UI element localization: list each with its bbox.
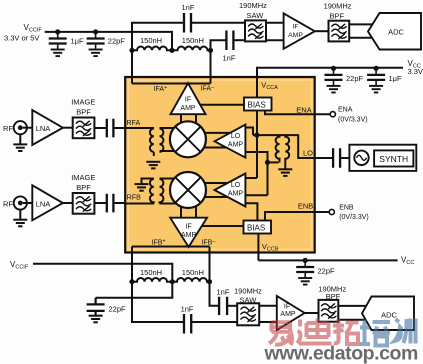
wire 1nF to SAW upper input <box>191 22 245 24</box>
terminal ENB <box>329 209 334 214</box>
IC block LT5575 dual downconverting mixer (orange body) <box>125 77 315 253</box>
wire VCCA pin into BIAS A <box>256 68 258 98</box>
svg-text:22pF: 22pF <box>108 37 126 46</box>
svg-text:RF: RF <box>3 199 13 208</box>
svg-text:AMP: AMP <box>181 232 197 239</box>
op-amp IF AMP (internal, channel A) <box>171 83 206 114</box>
wire SAW B to IF amp B (differential) <box>259 306 277 322</box>
svg-text:SAW: SAW <box>247 11 265 20</box>
svg-text:(0V/3.3V): (0V/3.3V) <box>339 214 369 221</box>
svg-text:ENA: ENA <box>296 106 311 115</box>
op-amp IF AMP (external, channel A) <box>284 13 315 48</box>
BPF 190MHz (channel B) <box>318 284 346 321</box>
capacitor 22pF (VCC bottom bypass) <box>296 258 335 285</box>
wire VCCB pin to rail <box>257 234 259 261</box>
SAW filter 190MHz (channel A) <box>239 1 267 41</box>
capacitor 1nF series (IFA- to SAW) <box>223 31 236 63</box>
BPF 190MHz (channel A) <box>324 2 352 42</box>
svg-text:AMP: AMP <box>180 105 196 112</box>
svg-text:1μF: 1μF <box>71 37 84 46</box>
wire transformer B secondary to mixer <box>160 179 176 204</box>
transformer (LO input balun) <box>276 135 290 169</box>
wire mixer A to IF amp A (differential pair) <box>181 114 196 123</box>
IMAGE BPF filter (channel B) <box>71 173 95 214</box>
wire transformer A secondary to mixer <box>160 128 175 151</box>
svg-text:1nF: 1nF <box>217 288 230 297</box>
node ENA external label <box>338 107 368 124</box>
BIAS block (channel B) <box>244 221 272 234</box>
wire IF amp A to BPF <box>315 30 329 32</box>
svg-text:1nF: 1nF <box>223 54 236 63</box>
inductor 150nH (left, IF B bias) <box>132 268 172 282</box>
wire ENA pin <box>265 111 330 115</box>
svg-text:BPF: BPF <box>330 12 345 21</box>
svg-text:IF: IF <box>185 224 191 231</box>
RF input port A (coax) <box>3 121 32 134</box>
svg-text:150nH: 150nH <box>140 268 162 277</box>
op-amp IF AMP (external, channel B) <box>277 296 305 330</box>
amplifier LNA (channel B) <box>32 185 63 220</box>
inductor 150nH (left, IF A bias) <box>132 36 172 50</box>
IMAGE BPF filter (channel A) <box>71 98 95 139</box>
svg-text:LO: LO <box>231 133 241 140</box>
capacitor 1nF series (IFB+ to SAW) <box>181 305 194 334</box>
wire IFB- riser to 1nF <box>210 282 220 306</box>
svg-text:BIAS: BIAS <box>248 101 266 110</box>
svg-text:1nF: 1nF <box>182 3 195 12</box>
svg-text:RFA: RFA <box>127 120 141 127</box>
watermark red character yi <box>269 322 292 345</box>
svg-text:AMP: AMP <box>280 311 296 318</box>
ADC (channel A) <box>368 13 421 50</box>
wire mixer B to LO amp B (differential) <box>204 183 229 197</box>
wire IFA outputs <box>132 83 211 85</box>
svg-text:1μF: 1μF <box>389 74 402 83</box>
svg-text:190MHz: 190MHz <box>234 287 262 296</box>
svg-text:ENB: ENB <box>339 205 354 212</box>
watermark blue character pei <box>360 320 390 346</box>
op-amp LO AMP (channel B) <box>215 174 246 207</box>
svg-text:3.3V: 3.3V <box>408 67 423 76</box>
wire BIAS A to LO bus <box>256 111 258 179</box>
ADC (channel B) <box>362 297 414 331</box>
wire LNA A to image filter <box>63 127 73 129</box>
BIAS block (channel A) <box>244 98 272 111</box>
capacitor 22pF (VCC top bypass) <box>325 66 364 93</box>
capacitor 1nF series (IFA+ to SAW) <box>182 3 195 33</box>
node VCCIF supply label <box>4 23 42 43</box>
svg-text:BPF: BPF <box>326 292 341 301</box>
watermark red character tuo <box>333 319 359 344</box>
RF input port B (coax) <box>3 196 32 209</box>
wire BPF A to ADC (differential) <box>349 24 373 37</box>
svg-text:www.edatop.com: www.edatop.com <box>264 343 418 364</box>
svg-text:SAW: SAW <box>240 295 258 304</box>
svg-text:BPF: BPF <box>76 183 91 192</box>
capacitor 22pF (VCCIF bottom bypass) <box>87 298 126 323</box>
ground (transformer B) <box>135 184 149 191</box>
ground (RF port A) <box>13 134 27 151</box>
svg-text:IF: IF <box>185 97 191 104</box>
op-amp LO AMP (channel A) <box>215 125 246 158</box>
ground (transformer A) <box>146 162 160 169</box>
svg-text:RFB: RFB <box>127 195 141 202</box>
svg-text:LNA: LNA <box>36 124 51 133</box>
wire BIAS A to IF amp A <box>200 104 244 106</box>
inductor 150nH (right, IF B bias) <box>172 268 209 282</box>
wire BPF B to ADC (differential) <box>338 306 367 320</box>
watermark red character di <box>297 319 332 344</box>
junction dot LO bus upper <box>254 133 259 138</box>
oscillator SYNTH box <box>349 145 416 171</box>
wire VCC rail (bottom) <box>258 259 397 261</box>
wire mixer A to LO amp A (differential) <box>204 133 231 148</box>
wire IFB+ vertical down to 1nF line <box>132 247 184 323</box>
wire cap to RFA pin <box>113 127 154 129</box>
capacitor 1uF (VCC top bypass) <box>367 66 402 93</box>
svg-text:1nF: 1nF <box>181 305 194 314</box>
wire VCC rail (top) <box>257 68 403 98</box>
svg-text:(0V/3.3V): (0V/3.3V) <box>338 117 368 124</box>
svg-text:22pF: 22pF <box>346 74 364 83</box>
svg-text:ADC: ADC <box>388 28 404 37</box>
wire IFB- vertical down <box>209 247 211 282</box>
inductor 150nH (right, IF A bias) <box>172 36 211 50</box>
SAW filter 190MHz (channel B) <box>234 287 262 326</box>
svg-text:150nH: 150nH <box>140 36 162 45</box>
wire LO amp A lower input and bus to LO amp B <box>245 152 267 195</box>
wire LO amp B bias stub to BIAS B <box>245 203 257 220</box>
junction dot LO bus lower <box>265 160 270 165</box>
node ENB external label <box>339 205 369 222</box>
svg-text:LNA: LNA <box>36 199 51 208</box>
svg-text:3.3V or 5V: 3.3V or 5V <box>4 34 39 43</box>
svg-text:AMP: AMP <box>288 32 303 39</box>
wire image filter A to coupling cap <box>94 127 106 129</box>
watermark blue character xun <box>395 319 416 344</box>
svg-text:190MHz: 190MHz <box>324 2 352 11</box>
svg-text:150nH: 150nH <box>182 36 204 45</box>
svg-text:ADC: ADC <box>381 311 397 320</box>
capacitor 1nF series (IFB- to SAW) <box>217 288 230 316</box>
svg-text:IF: IF <box>292 24 298 31</box>
svg-text:ENA: ENA <box>338 107 353 114</box>
svg-text:22pF: 22pF <box>109 305 127 314</box>
wire LO main line to LO pin <box>253 135 333 158</box>
svg-text:IMAGE: IMAGE <box>71 173 95 182</box>
wire IFA+ vertical and top line <box>132 23 184 84</box>
op-amp IF AMP (internal, channel B) <box>170 218 207 247</box>
wire VCCIF bottom rail <box>33 264 172 298</box>
svg-text:BIAS: BIAS <box>247 224 265 233</box>
svg-text:AMP: AMP <box>228 142 244 149</box>
node VCC 3.3V label (top right) <box>408 59 423 76</box>
terminal ENA <box>330 112 335 117</box>
svg-text:RF: RF <box>3 124 13 133</box>
wire 1nF to SAW lower input <box>233 39 245 41</box>
capacitor 22pF (VCCIF bypass) <box>87 29 126 56</box>
wire BIAS B to IF amp B <box>202 225 244 227</box>
wire mixer B to IF amp B (differential pair) <box>181 206 196 218</box>
wire SAW A to IF amp (differential) <box>266 23 284 41</box>
ground (RF port B) <box>13 210 27 227</box>
capacitor coupling (LO input) <box>333 148 340 168</box>
capacitor coupling (RFB input) <box>107 194 114 213</box>
capacitor 1uF (VCCIF bypass) <box>49 29 84 56</box>
svg-text:IMAGE: IMAGE <box>71 98 95 107</box>
svg-text:LO: LO <box>303 149 313 158</box>
svg-text:IF: IF <box>284 304 290 311</box>
wire VCCIF rail to inductor center tap <box>45 32 172 50</box>
wire IFA- vertical and riser to second 1nF <box>211 40 227 83</box>
transformer (RF B balun) <box>142 179 164 204</box>
wire 1nF to SAW B upper input <box>227 305 237 307</box>
wire RFB pin to transformer B <box>125 203 154 205</box>
wire LO cap to synthesizer <box>340 157 349 159</box>
amplifier LNA (channel A) <box>32 110 63 145</box>
mixer (channel A) <box>170 121 206 157</box>
junction dots on IF A bias line <box>129 48 213 53</box>
wire IFB outputs <box>132 246 210 248</box>
capacitor coupling (RFA input) <box>107 119 114 138</box>
svg-text:ENB: ENB <box>298 202 313 211</box>
junction dots on IF B bias line <box>129 279 212 284</box>
wire image filter B to coupling cap <box>94 202 106 204</box>
svg-text:22pF: 22pF <box>318 267 336 276</box>
wire LNA B to image filter <box>63 202 73 204</box>
mixer (channel B) <box>170 172 206 208</box>
svg-text:AMP: AMP <box>228 191 244 198</box>
svg-text:SYNTH: SYNTH <box>379 154 408 164</box>
svg-text:BPF: BPF <box>76 108 91 117</box>
svg-text:150nH: 150nH <box>182 268 204 277</box>
wire LO transformer secondary bottom <box>268 161 279 163</box>
wire cap to RFB pin <box>113 202 125 204</box>
wire ENB pin <box>265 212 329 221</box>
transformer (RF A balun) <box>150 128 164 156</box>
svg-text:190MHz: 190MHz <box>239 1 267 10</box>
wire 1nF to SAW B lower input <box>191 321 237 323</box>
ground (LO transformer) <box>278 169 292 176</box>
wire IF amp B to BPF <box>305 312 319 314</box>
wire LO amp A upper input <box>245 128 253 136</box>
svg-text:LO: LO <box>231 182 241 189</box>
